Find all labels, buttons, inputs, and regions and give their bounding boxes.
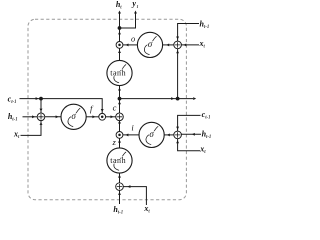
node odot_i elementwise product (116, 132, 123, 139)
wire sigma_o to odot_o (123, 44, 137, 46)
wire odot_f to cell plus (106, 116, 116, 118)
svg-text:y: y (131, 0, 136, 8)
op-amp sigma_i input gate circle (139, 122, 164, 147)
svg-text:tanh: tanh (110, 69, 126, 78)
arrowhead tanh up into odot_o (118, 50, 121, 53)
node plus_f sum (37, 113, 45, 121)
arrowhead x_t up into plus_i (176, 140, 179, 143)
dot center odot_i (118, 134, 121, 137)
arrowhead plus_o into sigma_o (166, 43, 169, 46)
node odot_o elementwise product (116, 42, 123, 49)
arrowhead c_t up into plus_o (176, 50, 179, 53)
wire plus_o to sigma_o (163, 44, 174, 46)
node plus_i sum (174, 131, 182, 139)
wire c_t horizontal out right (120, 98, 194, 100)
arrowhead x_t left into plus_o (183, 43, 186, 46)
arrowhead c_t-1 down into odot_f (101, 109, 104, 112)
arrowhead x_t left into plus_z (127, 185, 130, 188)
arrowhead tanh_z up into odot_i (118, 140, 121, 143)
plus cross cell plus (117, 114, 122, 119)
arrowhead h_t-1 up into plus_z (118, 192, 121, 195)
junction c_t center (118, 97, 122, 101)
node plus_o sum (174, 41, 182, 49)
arrowhead c_t up into tanh (118, 88, 121, 91)
svg-text:o: o (131, 33, 135, 43)
svg-text:t-1: t-1 (12, 117, 17, 122)
plus cross plus_f (38, 114, 43, 119)
wire y_t branch (120, 12, 136, 29)
wire c_t up from cell plus to tanh (119, 86, 121, 113)
wire h_t-1 bottom into plus_z (119, 190, 121, 204)
svg-text:t-1: t-1 (11, 100, 16, 105)
junction c_t-1 left (39, 97, 43, 101)
arrowhead h_t-1 left into plus_f (32, 115, 35, 118)
op-amp sigma_f forget gate circle (61, 104, 86, 129)
wire sigma_f to odot_f (86, 116, 98, 118)
arrowhead x_t up into plus_f (40, 122, 43, 125)
wire plus_i to sigma_i (164, 134, 173, 136)
svg-text:σ: σ (71, 111, 76, 121)
wire h_t-1 left into plus_f (23, 116, 38, 118)
op-amp tanh_z lower circle (107, 148, 132, 173)
wire plus_f to sigma_f (45, 116, 61, 118)
wire sigma_i to odot_i (123, 134, 139, 136)
svg-text:t-1: t-1 (206, 135, 211, 140)
arrowhead up below h/y junction (118, 31, 121, 34)
arrowhead h_t up (118, 11, 121, 14)
wire h_t-1 top right into plus_o (178, 24, 199, 42)
junction c_t peephole right (176, 97, 180, 101)
plus cross plus_z (117, 184, 122, 189)
wire tanh to odot_o (119, 48, 121, 60)
arrowhead c_t-1 right before left junction (36, 97, 39, 100)
plus cross plus_i (175, 132, 180, 137)
arrowhead c_t-1 down into plus_f (40, 109, 43, 112)
arrowhead c_t-1 down into plus_i (176, 127, 179, 130)
wire x_t bottom into plus_z (123, 187, 146, 205)
wire plus_z to tanh_z (119, 173, 121, 183)
plus cross plus_o (175, 42, 180, 47)
svg-text:tanh: tanh (110, 156, 126, 165)
arrowhead sigma_o into odot_o (126, 43, 129, 46)
arrowhead c_t exit right (193, 97, 196, 100)
wire c_t peephole up to plus_o (177, 49, 179, 99)
junction h/y branch (118, 26, 122, 30)
wire c_t-1 right into plus_i (178, 115, 201, 131)
arrowhead h_t-1 right inward (192, 133, 195, 136)
arrowhead c_t right before peephole junction (171, 97, 174, 100)
svg-text:t-1: t-1 (205, 116, 210, 121)
wire x_t left into plus_f (21, 121, 42, 136)
wire h_t output up (119, 12, 121, 45)
arrowhead sigma_i into odot_i (125, 133, 128, 136)
node plus_z sum (116, 183, 124, 191)
svg-text:t-1: t-1 (118, 210, 123, 215)
dot center odot_o (118, 44, 121, 47)
wire c_t-1 left to forget odot (20, 99, 103, 114)
arrowhead y_t up (134, 11, 137, 14)
arrowhead cell plus up to junction (118, 101, 121, 104)
node cell plus sum (116, 113, 124, 121)
op-amp tanh upper circle (107, 60, 132, 85)
wire x_t right into plus_o (182, 44, 200, 46)
svg-text:σ: σ (148, 39, 153, 49)
wire c_t-1 branch down to plus_f (40, 99, 42, 113)
dot center odot_f (101, 116, 104, 119)
svg-text:c: c (113, 102, 117, 112)
svg-text:t-1: t-1 (204, 25, 209, 30)
dashed cell boundary box (28, 19, 186, 199)
arrowhead odot_f into cell plus (111, 115, 114, 118)
node odot_f elementwise product (99, 113, 106, 120)
arrowhead plus_i into sigma_i (167, 133, 170, 136)
wire tanh_z to odot_i (119, 138, 121, 147)
arrowhead plus_z up into tanh_z (118, 175, 121, 178)
arrowhead sigma_f into odot_f (92, 115, 95, 118)
wire odot_i up to cell plus (119, 121, 121, 132)
arrowhead plus_f into sigma_f (56, 115, 59, 118)
svg-text:σ: σ (149, 129, 154, 139)
arrowhead odot_i up into cell plus (118, 121, 121, 124)
wire h_t-1 right into plus_i (181, 133, 201, 135)
svg-text:z: z (112, 137, 117, 147)
op-amp sigma_o output gate circle (137, 32, 162, 57)
arrowhead h_t-1 down into plus_o (176, 37, 179, 40)
wire x_t right lower into plus_i (178, 139, 200, 151)
